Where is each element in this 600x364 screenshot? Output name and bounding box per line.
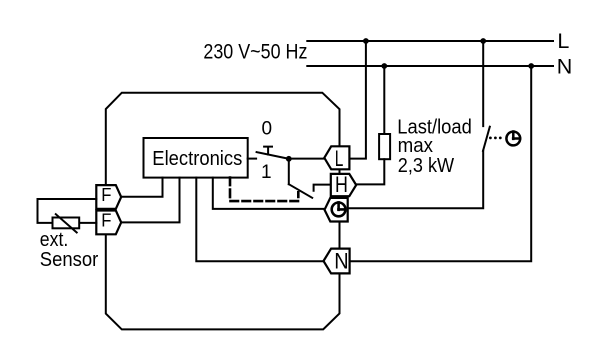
wire F2 to sensor [79,222,96,224]
wire L supply rail [307,40,553,42]
load R1 (2,3 kW) [379,134,390,159]
terminal F1 [96,185,121,209]
svg-text:H: H [335,172,348,197]
switch S1 input wire [248,158,256,160]
wire F2 to electronics [121,178,179,223]
terminal timer [325,198,348,222]
switch S1 lever [257,152,289,159]
wire from L rail to terminal L [349,41,366,159]
node junction on L rail [363,38,369,44]
svg-text:N: N [557,55,573,79]
svg-text:1: 1 [261,162,272,183]
terminal H [331,174,356,196]
wire F1 to electronics [121,178,162,197]
svg-text:2,3 kW: 2,3 kW [398,154,455,177]
wire switch to terminal L [289,158,325,160]
svg-text:Sensor: Sensor [40,249,99,271]
wire electronics to timer terminal [213,178,325,209]
wire from load to terminal H [356,159,384,184]
svg-text:F: F [101,210,111,231]
wire F1 to sensor loop [38,199,97,223]
svg-text:F: F [101,184,111,205]
terminal F2 [96,211,121,235]
thermistor diagonal [56,214,77,232]
electronics box U1 [144,138,248,178]
thermistor RT ext. sensor [53,218,80,229]
wire junction down to relay [288,159,290,184]
svg-text:0: 0 [262,118,273,139]
wire from time switch to timer terminal [348,151,483,208]
dashed actuator link [230,178,298,202]
node junction A [286,156,292,162]
svg-text:L: L [335,146,344,171]
terminal N [324,249,350,274]
time switch dotted link [489,137,502,140]
wire from N rail to terminal N [350,66,532,261]
relay contact K1 fixed contact [314,185,331,191]
node junction on N rail [528,63,534,69]
node junction on N rail [381,63,387,69]
time switch S2 lever [483,127,490,151]
wire from L rail to time switch [482,41,484,126]
node junction on L rail [480,38,486,44]
time switch clock symbol [506,132,520,146]
wire from N rail to load [383,66,385,134]
terminal L [324,146,349,169]
device enclosure outline [106,93,340,330]
terminal timer clock symbol [332,202,346,216]
svg-text:230 V~50 Hz: 230 V~50 Hz [203,40,307,64]
wire electronics to terminal N [196,178,323,262]
switch S1 contact tick [264,147,272,155]
svg-text:N: N [334,248,348,273]
relay contact K1 lever [289,184,312,198]
wire N supply rail [307,65,553,67]
svg-text:L: L [557,29,569,53]
svg-text:Electronics: Electronics [152,148,242,170]
